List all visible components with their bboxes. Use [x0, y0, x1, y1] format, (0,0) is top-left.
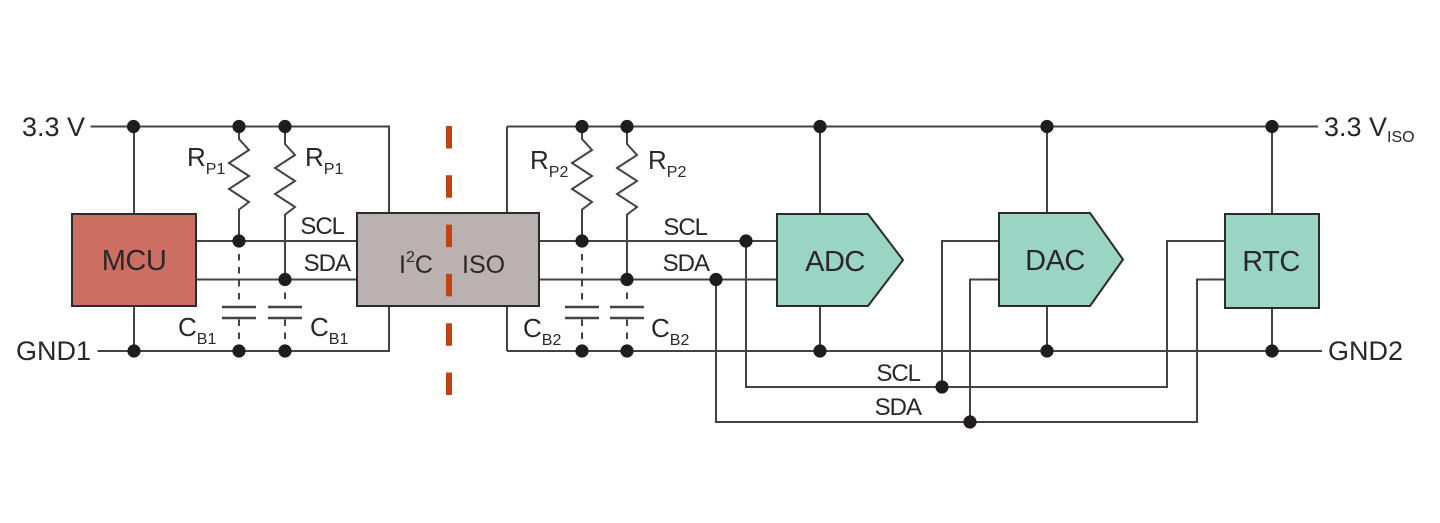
- svg-text:SDA: SDA: [875, 394, 922, 421]
- svg-text:3.3 V: 3.3 V: [22, 112, 85, 142]
- svg-text:ADC: ADC: [805, 246, 865, 278]
- svg-text:SDA: SDA: [304, 250, 351, 277]
- svg-text:MCU: MCU: [102, 245, 167, 277]
- svg-text:SDA: SDA: [663, 250, 710, 277]
- svg-text:SCL: SCL: [876, 360, 920, 387]
- svg-text:SCL: SCL: [300, 213, 344, 240]
- svg-text:GND1: GND1: [16, 336, 91, 366]
- svg-text:GND2: GND2: [1328, 336, 1403, 366]
- svg-text:RTC: RTC: [1242, 246, 1300, 278]
- svg-text:I2C: I2C: [399, 249, 433, 279]
- svg-text:ISO: ISO: [462, 251, 505, 279]
- svg-text:SCL: SCL: [663, 214, 707, 241]
- svg-text:DAC: DAC: [1025, 245, 1085, 277]
